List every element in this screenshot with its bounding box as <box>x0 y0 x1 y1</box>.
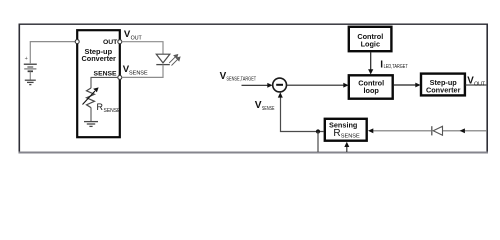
diode D2 <box>433 126 442 135</box>
control logic box U2 <box>349 27 392 51</box>
LED D1 <box>156 54 170 63</box>
svg-text:Logic: Logic <box>361 39 380 48</box>
svg-text:SENSE: SENSE <box>94 70 118 77</box>
wire frame to diode <box>443 130 488 132</box>
wire diode to sensing block <box>372 130 432 132</box>
arrowhead into sensing block <box>368 128 373 133</box>
junction dot <box>316 129 320 133</box>
svg-text:OUT: OUT <box>131 35 143 41</box>
svg-text:LED,TARGET: LED,TARGET <box>384 64 408 70</box>
wire junction dot to bottom frame <box>317 132 319 153</box>
svg-text:SENSE: SENSE <box>129 70 148 76</box>
wire VSENSE,TARGET to summing junction <box>242 84 269 86</box>
wire battery to converter input <box>30 42 75 64</box>
wire summing junction to control loop <box>287 84 345 86</box>
wire OUT pin to LED anode <box>122 42 163 54</box>
wire sensing block to summing junction (VSENSE) <box>281 97 325 132</box>
wire VOUT to frame <box>466 84 487 86</box>
arrowhead on wire (to diode) <box>460 128 465 133</box>
border frame <box>19 23 488 25</box>
wire SENSE to RSENSE <box>91 77 118 88</box>
battery B1 <box>24 64 37 79</box>
svg-text:V: V <box>255 100 262 111</box>
wire RSENSE to ground <box>90 108 92 121</box>
wire control loop to step-up converter <box>394 84 416 86</box>
svg-text:R: R <box>97 102 104 112</box>
svg-text:+: + <box>25 56 28 62</box>
wire LED cathode to SENSE pin <box>122 65 163 78</box>
step-up converter box (right) U4 <box>421 74 465 96</box>
svg-text:R: R <box>333 128 340 139</box>
svg-text:SENSE: SENSE <box>262 106 275 112</box>
pin IN (left edge) <box>75 40 79 44</box>
svg-text:SENSE,TARGET: SENSE,TARGET <box>226 77 256 83</box>
svg-text:loop: loop <box>363 86 379 95</box>
svg-text:OUT: OUT <box>474 81 486 87</box>
ground (battery) <box>25 80 36 84</box>
ground (RSENSE) <box>84 122 98 127</box>
sensing block U5 <box>325 119 367 141</box>
svg-text:Converter: Converter <box>81 54 116 63</box>
pin SENSE (right edge) <box>118 75 122 79</box>
wire control logic to control loop <box>370 52 372 70</box>
svg-text:OUT: OUT <box>103 39 118 46</box>
step-up converter box (left) U1 <box>77 30 120 137</box>
svg-text:Converter: Converter <box>426 86 461 95</box>
control loop box U3 <box>349 75 393 98</box>
pin OUT (right edge) <box>118 40 122 44</box>
svg-text:SENSE: SENSE <box>341 134 360 140</box>
wire bottom frame into sensing block <box>346 147 348 152</box>
svg-text:SENSE: SENSE <box>104 108 122 114</box>
resistor RSENSE (variable) <box>87 88 95 108</box>
summing junction <box>273 78 287 92</box>
